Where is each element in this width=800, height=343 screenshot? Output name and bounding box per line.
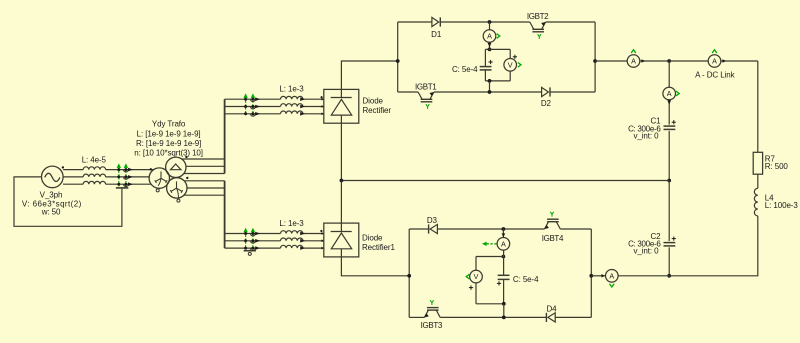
svg-text:Diode: Diode [363,97,384,106]
svg-text:R: 500: R: 500 [765,162,789,171]
wire bridge1 bottom rail [398,91,595,93]
label A - DC Link [695,71,735,80]
svg-text:IGBT2: IGBT2 [527,12,549,21]
svg-text:Diode: Diode [362,234,383,243]
svg-text:w: 50: w: 50 [41,207,61,216]
svg-text:IGBT4: IGBT4 [542,234,564,243]
junction bridge2 right [589,274,593,278]
junction bridge2 mid top [502,227,506,231]
green probe marker A-DC-Link [712,50,717,53]
wire bridge2 right to Am5 [591,274,605,277]
plus mark voltmeter bridge2 [469,286,473,290]
svg-text:Rectifier1: Rectifier1 [362,243,395,252]
inductor L: 1e-3 (top three-phase) [281,96,303,113]
plus mark voltmeter bridge1 [513,55,517,59]
wire bus vertical (delta to top branch) [224,99,226,173]
wire bridge2 top rail [409,228,591,230]
inductor L: 4e-5 (three-phase) [83,167,105,184]
diode rectifier block (bottom) [324,223,359,257]
capacitor C2h (5e-4, bridge2) [498,275,510,279]
wire L4 to DC- rail [669,216,758,276]
wire bus vertical (wye to bottom branch) [224,181,226,248]
ammeter Am3 [663,87,676,100]
wire to ammeter Am1 [489,22,491,30]
wire rectifier1 DC- to mid rail [340,123,342,180]
svg-text:D2: D2 [541,99,552,108]
probe3 neutral terminal [248,252,251,255]
resistor R7 [753,152,762,174]
diode D3 [429,224,438,233]
capacitor C1h (5e-4, bridge1) [480,67,492,70]
svg-text:L: 100e-3: L: 100e-3 [765,201,799,210]
transistor IGBT4 [545,212,561,229]
svg-text:V: V [474,272,479,281]
transistor IGBT3 [424,300,440,317]
svg-text:A: A [667,89,672,98]
junction DC+ node [667,59,671,63]
anchor dot Diode Rectifier [321,96,323,98]
wire wye output 1 [184,180,224,182]
wire bridge1 right to Am2 [595,60,627,62]
transformer delta symbol [171,164,181,170]
junction DC- node [667,274,671,278]
green probe marker Vm1 [518,63,521,68]
wire C2 to DC- rail [668,247,670,275]
three-phase voltmeter probe Vm1 (green arrows) [116,163,133,188]
junction bridge1 mid bottom [488,90,492,94]
svg-text:C: 5e-4: C: 5e-4 [452,65,478,74]
svg-text:IGBT3: IGBT3 [421,321,443,330]
label C: 5e-4 (bridge2) [513,275,539,284]
svg-text:A: A [609,271,614,280]
arrowheads into Diode Rectifier1 [321,232,324,249]
green probe arrow Am4 (left) [482,242,497,246]
svg-text:L: 1e-3: L: 1e-3 [279,219,304,228]
wire R7 to L4 [757,174,759,188]
plus mark capacitor bridge1 [489,60,493,64]
ammeter Am1 [483,30,496,43]
label Diode Rectifier [363,97,392,116]
wire source phase b [63,176,149,178]
label C1 [628,116,661,140]
junction mid rail left [340,179,344,183]
junction bridge1 mid top [488,20,492,24]
label D4 [546,304,557,313]
wire Am2 to junction [640,59,669,62]
capacitor/voltmeter parallel box (bridge2) [476,250,504,304]
wire bottom branch phase 1 [225,233,324,235]
ammeter A - DC Link [708,55,721,68]
label IGBT1 [415,82,437,91]
label C2 [628,232,661,256]
wire bridge1 right rail [594,22,596,92]
transformer neutral terminal (secondary) [177,199,180,202]
wire bridge2 left rail [408,229,410,317]
wire DC+ down to Am3 [668,61,670,87]
label D1 [431,30,442,39]
ammeter Am2 [627,55,640,68]
svg-text:v_int: 0: v_int: 0 [634,247,660,256]
label D3 [427,216,438,225]
diode rectifier block (top) [324,89,359,123]
junction bridge2 mid bottom [502,316,506,320]
arrowheads after inductor (top) [300,97,305,115]
arrowheads into Diode Rectifier [321,98,324,115]
wire bottom branch phase 2 [225,240,324,242]
label V_3ph [22,190,82,216]
wire bridge2 bottom rail [409,316,591,318]
wire rectifier2 DC- to bridge2 [341,257,409,276]
junction mid rail right [667,179,671,183]
capacitor C1 [664,126,676,129]
label L: 4e-5 [82,155,107,164]
plus mark C1 [672,120,676,124]
anchor dot Diode Rectifier1 [320,230,322,232]
junction below Am1 [488,48,492,52]
svg-text:A: A [712,57,717,66]
svg-text:A: A [501,239,506,248]
ammeter Am4 [497,233,510,250]
junction bridge2 left [407,274,411,278]
svg-text:A: A [631,57,636,66]
label L4 [765,193,799,210]
three-phase voltmeter probe Vm3 (green arrows) [243,228,260,251]
wire Am5 to DC- node [618,275,669,277]
transformer winding polarity dots [150,156,189,179]
svg-text:D3: D3 [427,216,438,225]
voltmeter Vm2 (bridge2) [470,270,483,283]
wire top branch phase 3 [225,113,324,115]
wire top branch phase 1 [225,98,324,100]
inductor L: 1e-3 (bottom three-phase) [281,231,303,248]
three-phase voltmeter probe Vm2 (green arrows) [243,93,260,116]
label D2 [541,99,552,108]
wire DC+ to load corner [721,59,758,62]
label C: 5e-4 (bridge1) [452,65,478,74]
transformer Ydy Trafo winding circles [149,157,187,198]
wire source phase c [63,183,151,185]
diode D2 [542,87,550,96]
svg-text:V: V [508,60,513,69]
label Ydy Trafo [134,120,203,158]
transistor IGBT1 [418,92,434,109]
inductor L4 [754,188,757,216]
green probe marker Am5 [610,284,615,287]
arrowheads after inductor (bottom) [300,232,305,250]
ammeter Am5 [606,270,619,283]
wire mid rail down to C2 [668,181,670,242]
svg-text:v_int: 0: v_int: 0 [634,132,660,141]
label Diode Rectifier1 [362,234,395,253]
plus mark C2 [672,237,676,241]
wire top branch phase 2 [225,106,324,108]
wire bridge1 left rail [397,22,399,92]
wire C1 to mid rail [668,131,670,181]
junction below Am4 [502,255,506,259]
wire rectifier2 DC+ to mid rail [340,181,342,224]
svg-text:C: 5e-4: C: 5e-4 [513,275,539,284]
transistor IGBT2 [530,22,546,39]
wire delta output 1 [182,158,225,160]
voltmeter Vm (bridge1) [504,59,517,72]
green probe marker Am2 [631,50,636,53]
wire mid rail [341,180,669,182]
capacitor C: 5e-4 parallel box (bridge1) [485,49,510,81]
three-phase voltage source V_3ph [42,166,65,188]
svg-text:V_3ph: V_3ph [40,190,63,199]
label L: 1e-3 (bottom) [279,219,304,228]
wire bridge1 top rail [398,21,595,23]
svg-text:Ydy Trafo: Ydy Trafo [152,120,186,129]
wire delta output 2 [186,165,225,167]
wire ammeter Am1 down [488,42,492,49]
wire wye output 3 [184,194,225,196]
diode D1 [432,17,440,26]
svg-text:D1: D1 [431,30,442,39]
svg-text:L: 1e-3: L: 1e-3 [279,85,304,94]
svg-text:L: 4e-5: L: 4e-5 [82,155,107,164]
label IGBT2 [527,12,549,21]
wire rectifier1 DC+ to bridge1 [341,61,397,89]
svg-text:L: [1e-9 1e-9 1e-9]: L: [1e-9 1e-9 1e-9] [137,129,201,138]
wire parallel box to bottom rail [489,81,491,92]
label IGBT3 [421,321,443,330]
green probe marker Vm2 [466,274,469,279]
junction below parallel box bridge2 [502,302,506,306]
svg-text:D4: D4 [546,304,557,313]
transformer neutral terminal (primary) [156,189,159,192]
label R7 [765,155,789,172]
svg-text:A: A [487,32,492,41]
svg-text:n: [10 10*sqrt(3) 10]: n: [10 10*sqrt(3) 10] [134,148,203,157]
green probe marker Am3 [676,91,679,96]
label L: 1e-3 (top) [279,85,304,94]
svg-text:IGBT1: IGBT1 [415,82,437,91]
diode D4 [546,313,555,322]
junction below parallel box bridge1 [488,79,492,83]
wire junction to Am-DC-Link [669,60,708,62]
wire source phase a [63,169,154,171]
green probe marker Am1 [497,34,500,39]
transformer wye symbol (primary) [155,172,167,186]
svg-text:Rectifier: Rectifier [363,106,392,115]
label IGBT4 [542,234,564,243]
wire parallel box to bridge2 bottom rail [503,304,505,318]
wire to ammeter Am4 [502,229,504,237]
wire bottom branch phase 3 [225,247,324,249]
junction bridge1 left [396,59,400,63]
plus mark capacitor bridge2 [497,281,501,285]
wire source neutral loop [14,177,122,226]
svg-text:A - DC Link: A - DC Link [695,71,735,80]
svg-text:R: [1e-9 1e-9 1e-9]: R: [1e-9 1e-9 1e-9] [136,139,201,148]
wire load right leg top [757,61,759,152]
wire Am3 to C1 [667,100,671,125]
wire delta output 3 [184,173,225,175]
capacitor C2 [664,243,676,246]
wire bridge2 right rail [590,229,592,317]
junction bridge1 right [593,59,597,63]
transformer wye symbol (secondary 2) [170,181,182,198]
wire wye output 2 [187,187,225,189]
